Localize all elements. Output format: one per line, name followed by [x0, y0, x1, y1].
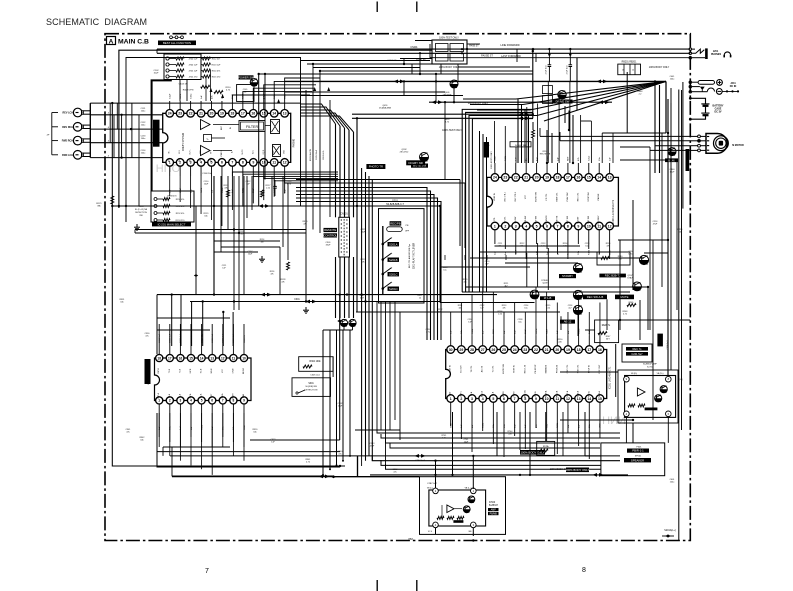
IC U201 top pins 24-13	[491, 174, 499, 182]
svg-text:12: 12	[283, 161, 287, 165]
junction pair y301	[306, 300, 317, 304]
module PB-R outer loop	[618, 370, 678, 423]
box R240 cluster	[597, 252, 630, 265]
svg-text:MB-A: MB-A	[221, 393, 224, 398]
svg-text:R112 4n7: R112 4n7	[212, 58, 221, 60]
svg-text:5: 5	[492, 397, 494, 401]
box R304	[299, 357, 333, 372]
IC U101 internal block X1	[271, 120, 280, 134]
svg-text:R409 OPN: R409 OPN	[183, 90, 194, 92]
svg-text:2.2k: 2.2k	[498, 313, 502, 315]
svg-text:B-2B347 AMP: B-2B347 AMP	[643, 363, 657, 366]
vertical x648 lower	[647, 287, 649, 330]
svg-text:DOLBY NR: DOLBY NR	[515, 145, 527, 147]
IC U301 pin stubs top	[158, 324, 160, 354]
bottom thick rail y476.4	[172, 475, 333, 477]
module PB-R pin 6	[666, 411, 672, 417]
horizontal y172 below IC1	[232, 171, 330, 173]
verticals transistor row to IC3	[560, 316, 562, 330]
svg-text:K301: K301	[294, 299, 300, 301]
svg-text:OSC CTL1: OSC CTL1	[504, 191, 506, 202]
svg-text:SW: SW	[139, 215, 142, 217]
svg-text:BEST ALL FUNCTION: BEST ALL FUNCTION	[163, 41, 191, 45]
horizontal y263	[505, 262, 578, 264]
svg-text:23: 23	[523, 348, 527, 352]
svg-text:100u: 100u	[141, 138, 145, 140]
IC U101 bottom pins 1-12	[166, 159, 174, 167]
IC U101 internal wires	[213, 124, 239, 126]
svg-text:4.7k: 4.7k	[623, 313, 627, 315]
svg-text:S201B: S201B	[389, 258, 398, 262]
svg-text:PV BYTE: PV BYTE	[556, 215, 558, 224]
junction marker y114	[519, 112, 530, 116]
svg-text:ALC A: ALC A	[481, 391, 484, 397]
up arrow junctions row	[210, 87, 331, 103]
fan node top-right long diagonals	[516, 81, 666, 99]
svg-text:T1 CTL: T1 CTL	[492, 365, 494, 373]
wires cap box to IC1	[179, 79, 181, 101]
svg-text:REC CTL A/B REV MB Tyn: REC CTL A/B REV MB Tyn	[408, 244, 411, 268]
svg-text:PHI A: PHI A	[587, 391, 590, 397]
svg-text:23: 23	[503, 176, 507, 180]
svg-text:C287 6u7: C287 6u7	[415, 460, 425, 462]
vertical pair x547 x552	[546, 130, 548, 163]
svg-text:S101: S101	[138, 206, 144, 208]
svg-text:PAUSE ST: PAUSE ST	[481, 55, 493, 58]
svg-text:POWER SW: POWER SW	[238, 75, 254, 79]
resistor network box S101 area	[151, 191, 194, 222]
minus circle terminal	[716, 89, 722, 95]
junction dots rails	[434, 474, 436, 476]
module PB-L corner pin 3	[471, 522, 477, 528]
horizontal y133 top right	[602, 132, 666, 134]
svg-text:REMOTE: REMOTE	[324, 228, 336, 232]
mid horizontal y252 left	[214, 251, 258, 253]
svg-text:10uF: 10uF	[338, 405, 343, 407]
svg-text:4.7u: 4.7u	[426, 331, 430, 333]
vertical bus x532 upper	[532, 49, 534, 118]
junction pair on y81 a	[394, 80, 405, 84]
svg-text:22: 22	[534, 348, 538, 352]
main horizontal bus y81	[285, 80, 666, 82]
svg-text:NF L: NF L	[211, 150, 213, 154]
long wire y103 through border	[90, 102, 300, 104]
svg-text:VREF IN: VREF IN	[494, 193, 496, 201]
svg-text:2SC2712: 2SC2712	[400, 152, 410, 154]
svg-text:MMUT: MMUT	[232, 392, 234, 399]
svg-text:25: 25	[502, 348, 506, 352]
svg-text:R302 B+: R302 B+	[244, 334, 246, 343]
svg-text:S201A(L+): S201A(L+)	[664, 529, 676, 532]
svg-text:17: 17	[241, 112, 245, 116]
fan horizontals to left	[463, 98, 516, 100]
svg-text:R151 47k: R151 47k	[176, 206, 185, 208]
svg-text:47u: 47u	[485, 147, 488, 149]
vertical x221	[220, 176, 222, 252]
svg-text:SV CTL: SV CTL	[504, 216, 506, 224]
module PB-L op-amp	[447, 505, 454, 513]
svg-text:DC IN: DC IN	[730, 85, 737, 88]
svg-text:13: 13	[210, 356, 214, 360]
svg-text:T1 A: T1 A	[491, 391, 494, 396]
wire loop 3 long left vertical	[112, 103, 163, 466]
transistor Q446	[668, 148, 676, 156]
svg-text:R115 270: R115 270	[212, 76, 221, 78]
wires inside border to motor terminals	[655, 145, 690, 147]
node dots y74	[258, 73, 260, 75]
svg-text:VCC: VCC	[222, 368, 224, 373]
diamond on top bus	[460, 48, 464, 50]
black bar REC PB in S201	[390, 221, 402, 225]
resistor R245	[627, 304, 636, 307]
motor brush ticks	[707, 136, 709, 138]
long vertical bundle x361-372	[361, 168, 363, 456]
svg-text:REC CTL: REC CTL	[577, 192, 579, 201]
svg-text:REC L IN: REC L IN	[524, 364, 526, 373]
wire bundle B4 verticals lower	[335, 257, 337, 318]
trim mark top-left	[376, 2, 378, 13]
module PB-L resistors	[437, 516, 444, 519]
jack REV LCH pair wires	[84, 110, 91, 112]
vertical stubs below resistor column	[205, 77, 207, 102]
right column vertical x682	[682, 82, 684, 209]
transistor Q202 mid	[420, 153, 429, 162]
wire outer loop around IC1 region	[119, 50, 432, 208]
svg-text:14: 14	[200, 356, 204, 360]
resistor R110	[201, 85, 210, 88]
junction dots jack wires	[120, 114, 122, 116]
module PB-L internal wires	[441, 505, 443, 518]
svg-text:MY-A: MY-A	[189, 393, 192, 398]
bottom rail y474.9	[370, 474, 628, 476]
svg-text:PB/MB: PB/MB	[490, 513, 498, 515]
wire top bus 3 segment to phones	[430, 57, 690, 59]
svg-text:Q209: Q209	[542, 283, 548, 285]
svg-text:B-2B347: B-2B347	[489, 505, 499, 507]
svg-text:10k: 10k	[204, 215, 207, 217]
svg-text:FF CTL: FF CTL	[546, 193, 548, 201]
verticals below IC2 staircase	[494, 238, 496, 244]
svg-text:REC/PB: REC/PB	[390, 221, 401, 225]
bottom extra verticals through rails	[399, 440, 401, 475]
svg-text:100% BODY ONLY: 100% BODY ONLY	[491, 150, 493, 168]
svg-text:IC-201 MAIN SELECT: IC-201 MAIN SELECT	[158, 222, 186, 226]
svg-text:RT5B 470: RT5B 470	[168, 196, 178, 198]
vertical from CN401 down	[440, 64, 442, 74]
svg-text:18: 18	[556, 176, 560, 180]
svg-text:2: 2	[169, 399, 171, 403]
switch symbol in S301	[296, 392, 298, 394]
plus circle terminal	[717, 80, 723, 86]
svg-text:47k: 47k	[281, 281, 284, 283]
svg-text:FILTER: FILTER	[246, 125, 259, 129]
wire bundle B1 corners into IC2 region	[462, 109, 533, 292]
svg-text:REC SW A·B: REC SW A·B	[587, 295, 604, 299]
IC U202 pin stubs bottom	[450, 402, 452, 412]
svg-text:9: 9	[577, 224, 579, 228]
black bar below IC3	[520, 450, 545, 455]
svg-text:10k: 10k	[253, 431, 256, 433]
verticals feeding IC2 from top	[494, 121, 496, 163]
IC U201 body	[487, 177, 618, 226]
module PB-L feed wires	[435, 461, 437, 488]
svg-text:10u: 10u	[585, 245, 588, 247]
resistor R115 symbol	[227, 190, 230, 197]
black bar under Q203	[540, 296, 555, 300]
svg-text:B+: B+	[231, 151, 233, 153]
svg-text:19: 19	[545, 176, 549, 180]
svg-text:MD-B: MD-B	[211, 368, 213, 374]
svg-text:MUTE SW: MUTE SW	[503, 364, 505, 374]
bus y102	[429, 101, 612, 103]
IC U101 pin stub wires top	[169, 101, 171, 110]
module PB-R black bar	[645, 408, 658, 411]
vertical from Q401 down	[453, 88, 455, 102]
svg-text:24: 24	[493, 176, 497, 180]
black bar label MUTE	[615, 295, 634, 300]
svg-text:100% BODY ONLY: 100% BODY ONLY	[521, 450, 545, 454]
connector CN301 dashed box	[339, 217, 350, 257]
vertical x135 for bus	[134, 230, 136, 234]
svg-text:1k: 1k	[622, 70, 624, 72]
horizontal y451 left rails	[157, 451, 340, 453]
svg-text:19: 19	[566, 348, 570, 352]
svg-text:100u: 100u	[141, 110, 145, 112]
vertical x633 into speaker box	[632, 423, 634, 443]
svg-text:PHONES: PHONES	[711, 53, 722, 56]
switch contact S201D	[383, 283, 391, 289]
svg-text:47u: 47u	[393, 471, 396, 473]
bus y74	[259, 73, 533, 75]
svg-text:20: 20	[555, 348, 559, 352]
top center extra verticals	[419, 55, 421, 74]
svg-text:29: 29	[459, 348, 463, 352]
IC1 bottom staircase to right	[231, 176, 233, 210]
junction pair y206	[259, 204, 270, 208]
svg-text:1uF: 1uF	[609, 157, 611, 161]
svg-text:9: 9	[252, 161, 254, 165]
svg-text:22: 22	[189, 112, 193, 116]
svg-text:10k: 10k	[438, 311, 441, 313]
motor leads	[701, 135, 707, 137]
box next to Q402	[543, 86, 553, 94]
more verticals above IC3 pins	[450, 312, 452, 336]
svg-text:100u: 100u	[141, 152, 145, 154]
svg-text:НИИ: НИИ	[602, 415, 626, 427]
svg-text:16: 16	[251, 112, 255, 116]
svg-text:MAMA IN: MAMA IN	[545, 364, 548, 373]
svg-text:ALC IN: ALC IN	[481, 365, 484, 372]
module PB-L outer wire box	[420, 477, 506, 535]
long vertical x265	[264, 74, 266, 180]
horizontal y292	[462, 291, 630, 293]
capacitor C113 below IC1	[274, 180, 276, 186]
svg-text:1uF: 1uF	[495, 251, 497, 255]
svg-text:RB201 RB201: RB201 RB201	[622, 62, 637, 64]
bus y118	[352, 117, 533, 119]
svg-text:3: 3	[471, 397, 473, 401]
staircase wires from IC1 top pins to right	[232, 95, 310, 101]
vertical x357 to PB-L outer corner	[357, 456, 359, 477]
module PB-R pin 8	[666, 376, 672, 382]
svg-text:11: 11	[272, 161, 276, 165]
svg-text:SCHEMATIC DIAGRAM: SCHEMATIC DIAGRAM	[46, 17, 147, 27]
black bar 100pc body only above speaker box	[566, 468, 589, 473]
horizontal y240 right	[618, 239, 668, 241]
svg-text:LINE FORWARD: LINE FORWARD	[500, 44, 519, 47]
svg-text:100% BODY ONLY: 100% BODY ONLY	[649, 66, 670, 69]
battery loop wires	[690, 98, 705, 104]
right column vertical x668	[667, 99, 669, 375]
junction arrows on rail y455	[415, 454, 426, 458]
svg-text:7: 7	[205, 568, 209, 575]
svg-text:MUTE: MUTE	[621, 295, 629, 299]
thick bus corner from cap box	[152, 80, 172, 191]
svg-text:GND: GND	[450, 391, 452, 396]
IC U301 top pins 18-10	[156, 354, 163, 361]
svg-text:S201D: S201D	[389, 287, 398, 291]
vertical x545 below IC3	[545, 412, 547, 441]
transistor Q207	[633, 282, 642, 291]
vertical x620 mid	[619, 240, 621, 330]
vertical x563 below IC3	[562, 412, 564, 456]
long vertical x377-390	[376, 301, 378, 430]
transistor Q205	[573, 305, 582, 314]
label Q402 black bar	[553, 100, 573, 104]
svg-text:14: 14	[597, 176, 601, 180]
svg-text:14: 14	[272, 112, 276, 116]
svg-text:4700 5uF: 4700 5uF	[189, 58, 199, 60]
label Q-D-D circles	[170, 36, 173, 39]
junction dots on vertical buses	[213, 205, 215, 207]
svg-text:21: 21	[545, 348, 549, 352]
svg-text:M401 ST: M401 ST	[388, 60, 398, 62]
wire right of IC5 boxes x339	[339, 295, 341, 440]
junction arrows on bottom rail	[593, 473, 604, 477]
svg-text:27: 27	[481, 348, 485, 352]
svg-text:PB L: PB L	[169, 158, 171, 162]
svg-text:PB/L: PB/L	[409, 539, 415, 541]
long vertical x313	[312, 64, 314, 230]
module PB-L corner pin 4	[433, 522, 439, 528]
svg-text:10: 10	[242, 356, 246, 360]
svg-text:2.2k: 2.2k	[546, 307, 550, 309]
connector box CN401	[432, 40, 467, 64]
black vertical bar DOLBY right	[657, 334, 663, 347]
switch S201 left rail	[382, 226, 384, 295]
extra verticals below IC1	[243, 176, 245, 295]
svg-text:47u: 47u	[145, 335, 148, 337]
svg-text:SL (F↔R) NB: SL (F↔R) NB	[135, 209, 148, 211]
svg-text:SP501: SP501	[635, 456, 642, 458]
vertical x412 y64	[411, 64, 413, 74]
more junction dots	[356, 117, 358, 119]
svg-text:16: 16	[179, 356, 183, 360]
svg-text:16: 16	[576, 176, 580, 180]
junction marker y118	[519, 116, 530, 120]
vertical drop x460 x465	[459, 180, 461, 247]
IC1 bottom left pins drop wires	[169, 176, 171, 196]
svg-text:47k: 47k	[502, 307, 505, 309]
svg-text:C301 5uF: C301 5uF	[159, 333, 161, 343]
IC U202 body	[446, 350, 607, 399]
svg-text:13: 13	[283, 112, 287, 116]
svg-text:NF R: NF R	[221, 149, 223, 154]
svg-text:MUTE SW: MUTE SW	[536, 192, 538, 202]
svg-text:47u: 47u	[126, 431, 129, 433]
black bar resistor network label	[152, 222, 191, 226]
diamond junction x196	[194, 274, 198, 277]
horizontal collectors below IC2 y258	[470, 257, 644, 259]
junction circles above IC5 b	[349, 319, 356, 326]
jack wire into board REV RCH	[90, 128, 163, 130]
transistor Q206	[573, 263, 582, 272]
IC5 bottom staircase to rails	[158, 413, 160, 447]
svg-text:R226 47k: R226 47k	[323, 150, 325, 160]
svg-text:47u: 47u	[338, 453, 341, 455]
IC U101 body	[163, 113, 291, 162]
svg-text:OSC A: OSC A	[566, 390, 569, 397]
svg-text:EQ R: EQ R	[263, 149, 265, 154]
svg-text:REF A: REF A	[598, 390, 601, 396]
black vertical bar REC/PB at border	[686, 149, 690, 171]
svg-text:R114 47k: R114 47k	[212, 70, 220, 72]
phones jack tip zigzag	[692, 49, 705, 53]
svg-text:ONT-B: ONT-B	[158, 367, 160, 374]
horizontal y330 left	[157, 329, 210, 331]
battery symbol cells	[701, 103, 709, 105]
IC U202 top pins 30-16	[447, 346, 455, 354]
IC U101 internal block X2	[273, 145, 281, 157]
svg-text:MY-B: MY-B	[190, 368, 192, 373]
right column extra verticals	[649, 147, 651, 330]
verticals below IC3	[450, 412, 452, 426]
vertical x577 from top bus	[576, 58, 578, 110]
svg-text:AMP: AMP	[491, 508, 496, 511]
vertical x333 and x347 near boxes	[332, 357, 334, 377]
horizontal y121 segment	[581, 120, 592, 122]
module PB-R pin 9	[624, 376, 630, 382]
svg-text:47uF: 47uF	[653, 223, 658, 225]
module PB-L transistor Qb	[463, 506, 470, 513]
svg-text:4: 4	[190, 399, 192, 403]
svg-text:DOLBY NR: DOLBY NR	[409, 161, 423, 165]
wire Q451 to bus	[403, 81, 405, 95]
svg-text:REC LA: REC LA	[523, 390, 526, 398]
B4 bundle continuation to bottom rails	[322, 330, 324, 475]
svg-text:10uF: 10uF	[204, 183, 209, 185]
svg-text:470k 1uF: 470k 1uF	[189, 70, 198, 72]
svg-text:T2-B: T2-B	[169, 368, 171, 373]
black bar PHOTO SENSOR	[366, 164, 385, 169]
right column horizontal stubs	[620, 146, 650, 148]
svg-text:23: 23	[178, 112, 182, 116]
svg-text:REC 7s: REC 7s	[633, 347, 643, 351]
resistor R111	[214, 91, 223, 94]
jack FWD RCH pair wires	[84, 138, 91, 140]
svg-text:T1-A: T1-A	[178, 393, 181, 398]
black bar REMOTE label b	[324, 233, 338, 237]
right column vertical x678	[678, 90, 680, 541]
svg-text:T2-A: T2-A	[168, 393, 171, 398]
IC U101 internal op-amp A1	[201, 120, 211, 130]
svg-text:STANBY: STANBY	[562, 274, 573, 278]
ground G3	[261, 256, 263, 259]
motor M401 D-shaped body	[706, 134, 727, 154]
svg-text:4.7k: 4.7k	[445, 121, 449, 123]
wire left vertical 4	[131, 103, 133, 158]
svg-text:1: 1	[450, 397, 452, 401]
